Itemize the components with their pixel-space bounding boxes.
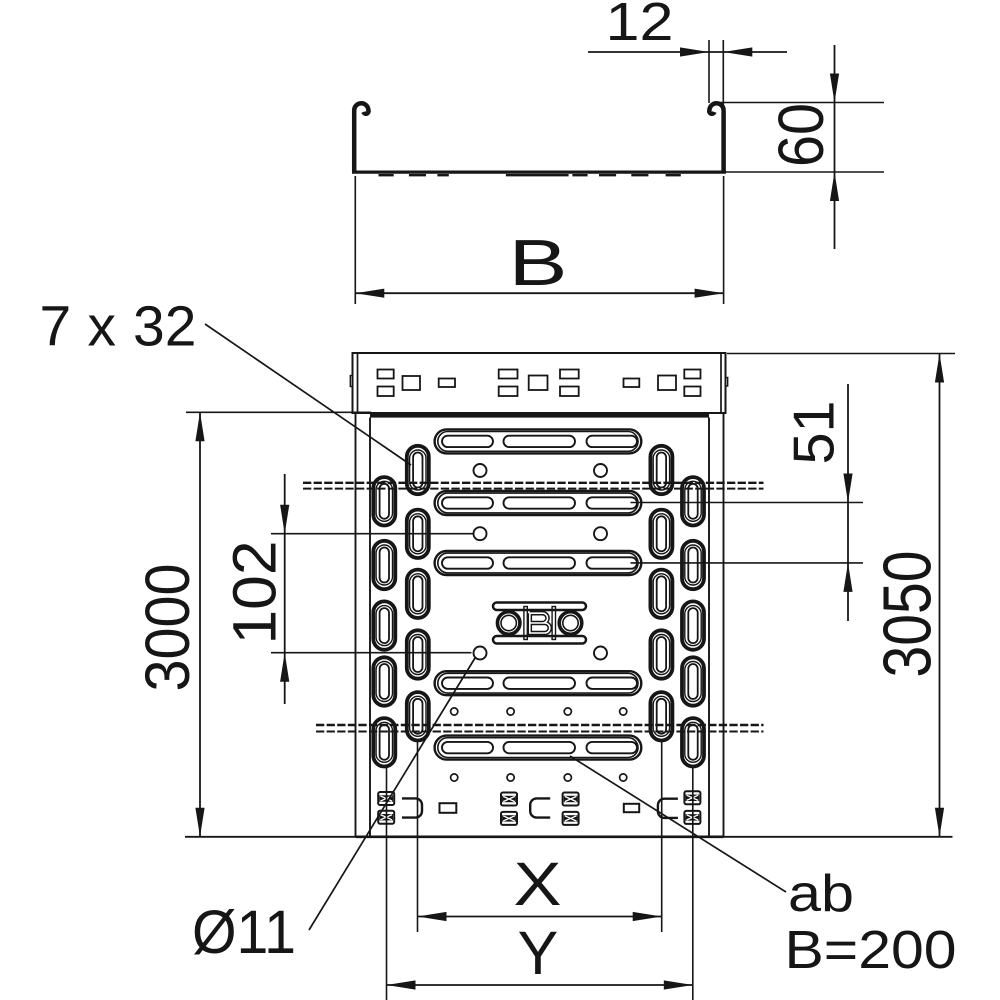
connector bolt pair right (684, 791, 700, 804)
vertical slot right inner 1 (650, 446, 672, 494)
coupler square hole 2 (529, 376, 548, 391)
leader line for diameter 11 (309, 658, 475, 930)
vertical slot left inner 5 (407, 692, 429, 740)
tray body right edge lines (708, 418, 710, 838)
OBO logo bottom bar (493, 636, 586, 644)
mounting holes row y=470.5 (474, 464, 487, 477)
vertical slot left outer 2 (373, 541, 395, 589)
dimension 60 line (834, 45, 836, 249)
tray body left edge lines (355, 413, 357, 837)
OBO logo left O (497, 612, 520, 635)
vertical slot right outer 3 (682, 601, 704, 649)
perforation slot row 5 (435, 736, 642, 760)
dimension 3000 text (rotated) (133, 564, 203, 692)
OBO logo divider right (552, 607, 555, 640)
tray cross-section bottom flange (352, 171, 726, 174)
vertical slot left outer 5 (373, 718, 395, 766)
mounting holes row y=653.0 (474, 647, 487, 660)
small holes row y=711.5 (451, 708, 458, 715)
svg-text:x: x (88, 295, 117, 359)
vertical slot right inner 4 (650, 630, 672, 678)
vertical slot left inner 1 (407, 446, 429, 494)
dimension 3050 top reference line (727, 353, 955, 355)
tray body top edge (thick) (370, 412, 709, 417)
coupler left side tab (350, 376, 352, 387)
clamp bracket left (opens left) (402, 798, 422, 817)
OBO logo divider left (524, 607, 527, 640)
dimension 51 text (rotated) (783, 401, 847, 465)
coupler hole pair group 1 (378, 370, 394, 379)
dimension 60 extension lines (719, 102, 884, 104)
svg-text:32: 32 (133, 295, 196, 359)
vertical slot left outer 3 (373, 601, 395, 649)
leader line for ab B=200 (570, 756, 786, 892)
coupler end plate inner edge lines (357, 353, 359, 413)
coupler hole pair group 2 (499, 370, 518, 379)
dimension 102 text (rotated) (220, 541, 288, 645)
OBO logo top bar (493, 603, 586, 611)
dimension 3000 top reference line (186, 411, 371, 413)
dimension 60 text (rotated) (765, 103, 837, 167)
dimension B extension lines (354, 176, 356, 304)
dimension X arrows (418, 912, 447, 921)
coupler small hole 2 (624, 379, 640, 388)
svg-text:7: 7 (40, 295, 72, 359)
svg-text:51: 51 (783, 401, 847, 465)
mounting holes row y=533.7 (474, 527, 487, 540)
OBO logo letter B (530, 613, 550, 633)
dimension 3050 text (rotated) (870, 551, 946, 678)
vertical slot right inner 5 (650, 692, 672, 740)
dimension 3000 arrows (195, 412, 204, 441)
coupler hole pair group 4 (684, 370, 700, 379)
OBO logo right O (559, 612, 582, 635)
vertical slot right outer 1 (682, 477, 704, 525)
leader line for 7 x 32 (205, 324, 411, 465)
svg-text:3050: 3050 (870, 551, 946, 678)
bottom flange slot marks (perforations seen edge-on) (379, 174, 394, 176)
perforation slot row 2 (435, 491, 642, 515)
vertical slot left outer 1 (373, 477, 395, 525)
clamp bracket middle (opens right) (530, 798, 550, 817)
clamp bracket right (opens right) (658, 799, 678, 818)
break line pair lower (316, 724, 764, 726)
dimension 60 arrows (830, 74, 839, 103)
vertical slot left outer 4 (373, 657, 395, 705)
svg-text:102: 102 (220, 541, 288, 645)
svg-text:Ø11: Ø11 (192, 898, 296, 966)
connector bolt pair middle-left (501, 793, 517, 806)
svg-text:60: 60 (765, 103, 837, 167)
connector bolt pair left (378, 792, 394, 805)
tray cross-section left wall with hook (354, 103, 368, 171)
svg-text:ab: ab (788, 865, 854, 923)
dimension 12 arrows (680, 47, 709, 56)
coupler small hole 1 (439, 379, 455, 388)
tray cross-section right wall with hook (709, 103, 723, 171)
dimension Y arrows (387, 980, 416, 989)
svg-text:B: B (509, 226, 568, 299)
dimension Y extension lines (386, 768, 388, 1000)
tray body bottom edge (356, 835, 724, 838)
connector hole left (440, 803, 457, 813)
dimension 51 arrows (843, 474, 852, 503)
dimension X extension lines (417, 742, 419, 932)
coupler hole pair group 3 (560, 370, 579, 379)
vertical slot right inner 2 (650, 510, 672, 558)
vertical slot left inner 4 (407, 630, 429, 678)
svg-text:Y: Y (518, 919, 559, 987)
dimension 12 extension lines (708, 40, 710, 103)
perforation slot row 4 (435, 671, 642, 695)
dimension B arrows (355, 289, 384, 298)
vertical slot right outer 2 (682, 541, 704, 589)
shared bottom reference line (185, 836, 953, 838)
perforation slot row 3 (435, 551, 642, 575)
dimension 51 reference lines (631, 502, 864, 504)
vertical slot right outer 5 (682, 718, 704, 766)
dimension 51 line (847, 384, 849, 621)
coupler square hole 1 (403, 376, 421, 390)
dimension 102 arrows (280, 505, 289, 534)
coupler right side tab (726, 378, 728, 387)
connector bolt pair middle-right (563, 793, 579, 806)
svg-text:3000: 3000 (133, 564, 203, 692)
break line pair upper (303, 482, 764, 484)
svg-text:B=200: B=200 (785, 920, 957, 980)
dimension Y line (387, 984, 693, 986)
small holes row y=777.5 (451, 774, 458, 781)
svg-text:X: X (514, 850, 562, 918)
dimension X line (418, 916, 662, 918)
vertical slot left inner 2 (407, 510, 429, 558)
dimension 3050 arrows (935, 354, 944, 383)
connector hole right (624, 804, 639, 812)
dimension B line (355, 292, 723, 294)
coupler square hole 3 (658, 376, 676, 391)
dimension 3000 line (199, 412, 201, 837)
vertical slot left inner 3 (407, 570, 429, 618)
dimension 3050 line (939, 354, 941, 837)
coupler end plate outline (353, 353, 726, 413)
perforation slot row 1 (435, 429, 642, 453)
dimension 102 line (284, 474, 286, 704)
dimension 102 reference lines (271, 533, 474, 535)
vertical slot right inner 3 (650, 570, 672, 618)
dimension 12 line (588, 51, 787, 53)
vertical slot right outer 4 (682, 657, 704, 705)
svg-text:12: 12 (606, 0, 674, 52)
